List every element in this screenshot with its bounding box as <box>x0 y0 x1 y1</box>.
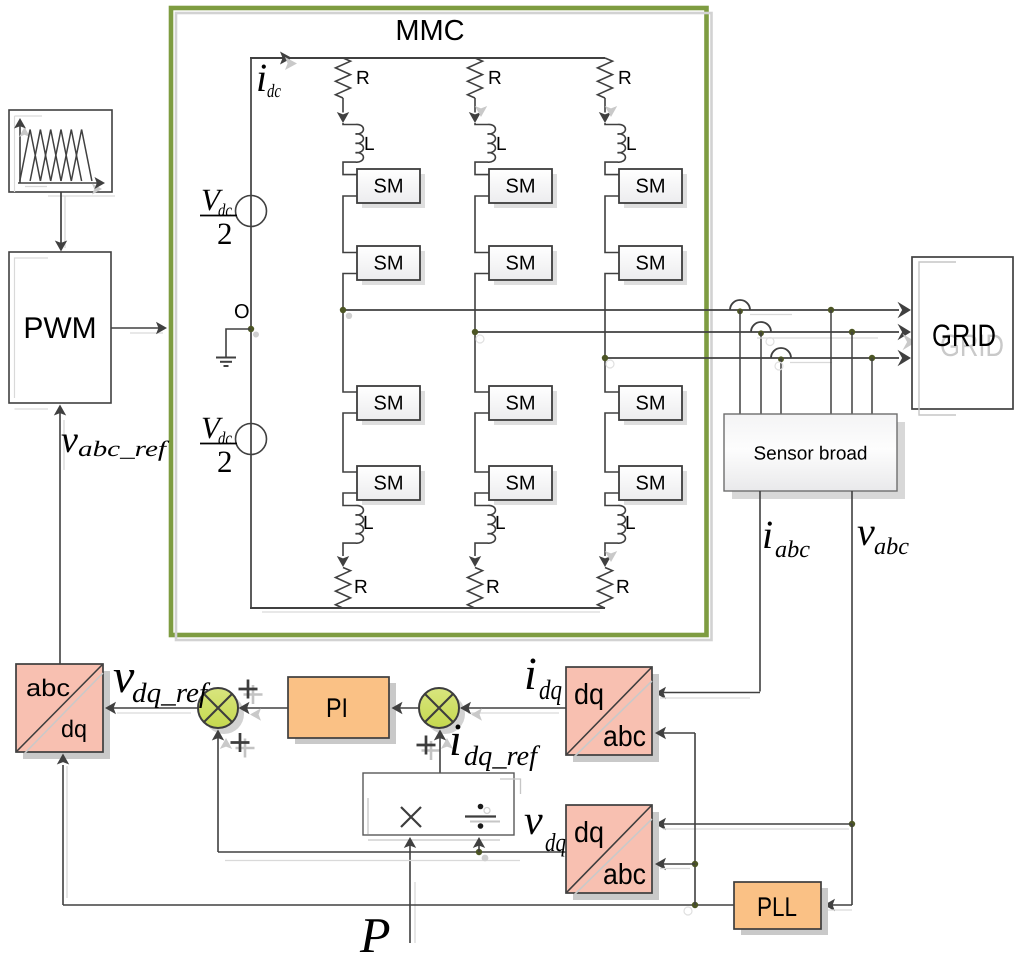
MMC enclosure green frame <box>171 8 707 635</box>
ghost arrowhead sum1 right <box>250 708 261 720</box>
arrowhead phase C into GRID <box>898 350 912 366</box>
wire voltage tap A to sensor board <box>830 310 832 414</box>
wire current sensor C to sensor board <box>780 358 782 414</box>
arrowhead i_abc into dq/abc <box>655 687 666 699</box>
svg-text:SM: SM <box>374 253 404 275</box>
svg-text:v: v <box>857 509 875 554</box>
ghost PLL input <box>827 909 852 911</box>
wire PI to sum1 <box>240 707 288 709</box>
svg-text:R: R <box>486 577 500 598</box>
node phase C junction <box>602 355 608 361</box>
arrowhead into PI <box>392 702 403 714</box>
arrowhead theta into dq/abc1 <box>655 727 666 739</box>
wire dc link vertical <box>250 58 252 608</box>
arrowhead into PLL <box>824 899 835 911</box>
svg-text:dq: dq <box>61 716 87 743</box>
carrier axes <box>19 122 21 183</box>
node theta junction <box>692 902 698 908</box>
inductor L upper arm C <box>605 123 625 175</box>
svg-text:R: R <box>488 68 502 89</box>
arrowhead v_dq into divider <box>473 837 485 848</box>
ghost node A <box>346 313 352 319</box>
svg-text:L: L <box>364 134 375 155</box>
voltage tap node phase A <box>828 307 834 313</box>
wire PWM to MMC shadow <box>130 332 163 334</box>
diagonal dq/abc2 <box>567 806 651 892</box>
svg-text:dq: dq <box>545 828 566 857</box>
wire theta branch vertical <box>694 733 696 905</box>
ghost diagonal dq/abc1 <box>574 681 652 757</box>
wire v_dq into divider <box>478 842 480 852</box>
block dq/abc 1 <box>573 674 659 762</box>
ghost arrowhead sum2 right <box>471 708 482 720</box>
svg-text:abc: abc <box>26 675 70 702</box>
svg-text:PWM: PWM <box>23 312 96 345</box>
node phase B junction <box>472 329 478 335</box>
wire SMC3 to SMC4 <box>605 413 619 472</box>
svg-text:dq: dq <box>574 817 604 849</box>
svg-text:R: R <box>354 577 368 598</box>
summing junction 2 (i) <box>425 694 465 734</box>
svg-text:2: 2 <box>217 444 233 479</box>
wire resistor to arrow upper A <box>342 98 344 113</box>
resistor R lower arm C <box>598 568 613 609</box>
svg-text:abc_ref: abc_ref <box>78 436 170 461</box>
svg-text:SM: SM <box>506 473 536 495</box>
svg-text:dq_ref: dq_ref <box>132 678 210 709</box>
wire theta PLL output <box>63 904 734 906</box>
svg-text:L: L <box>496 134 507 155</box>
plus sign sum1 upper <box>244 693 263 696</box>
ghost line after hump C <box>790 362 832 364</box>
wire phase B to GRID <box>475 331 899 333</box>
inductor L upper arm A <box>343 123 363 175</box>
ghost arrowhead phase B <box>903 334 917 350</box>
inductor L lower arm B <box>475 493 495 556</box>
wire phase A to GRID <box>343 309 899 311</box>
resistor R upper arm B <box>468 58 483 98</box>
arrowhead v_abc into dq/abc2 <box>655 818 666 830</box>
wire SMB1 to SMB2 <box>475 196 489 253</box>
arrowhead arm current lower C <box>599 556 611 567</box>
resistor R lower arm B <box>468 568 483 609</box>
svg-text:i: i <box>256 55 267 100</box>
ghost line after hump A <box>750 314 792 316</box>
ghost i_abc elbow <box>660 697 750 699</box>
submodule SM A3 <box>362 391 425 425</box>
arrowhead into sum2 <box>460 702 471 714</box>
svg-text:abc: abc <box>603 859 646 891</box>
svg-text:SM: SM <box>506 176 536 198</box>
svg-text:SM: SM <box>636 473 666 495</box>
block PWM <box>9 252 111 403</box>
arrowhead arm current lower A <box>337 556 349 567</box>
wire v_abc down to PLL <box>851 824 853 905</box>
submodule SM B3 <box>494 391 557 425</box>
ghost arrowhead lower C <box>605 551 617 562</box>
resistor R upper arm C <box>598 58 613 98</box>
svg-text:L: L <box>495 513 506 534</box>
arrowhead v_abc_ref into PWM <box>54 405 66 416</box>
divide symbol <box>470 821 500 823</box>
wire PWM to MMC <box>111 327 162 329</box>
wire dc bottom bus <box>250 607 605 609</box>
node phase A junction <box>340 307 346 313</box>
arrowhead into MMC <box>156 322 167 334</box>
svg-text:abc: abc <box>603 721 646 753</box>
inductor L lower arm C <box>605 493 625 556</box>
ghost diagonal abc/dq <box>24 673 103 754</box>
wire i_dq_ref multiplier to sum2 <box>439 731 441 773</box>
svg-text:MMC: MMC <box>395 15 464 47</box>
wire i_abc from sensor board <box>759 491 761 692</box>
submodule SM A4 <box>362 471 425 505</box>
ghost node v_dq <box>482 855 489 862</box>
wire i_abc into dq/abc upper input <box>657 692 760 694</box>
svg-text:SM: SM <box>374 176 404 198</box>
wire v_abc into PLL <box>826 904 852 906</box>
block PLL <box>741 888 828 935</box>
svg-text:R: R <box>618 68 632 89</box>
ground symbol <box>226 329 251 357</box>
ghost arrowhead i_dc <box>285 57 297 70</box>
wire SMC1 to SMC2 <box>605 196 619 253</box>
submodule SM B2 <box>494 251 557 285</box>
wire carrier to PWM <box>60 192 62 246</box>
ghost theta branch <box>660 868 690 870</box>
svg-text:SM: SM <box>506 393 536 415</box>
svg-text:P: P <box>359 907 391 957</box>
wire v_abc into dq/abc2 upper input <box>657 823 852 825</box>
plus sign sum2 <box>422 749 441 752</box>
carrier waveform box <box>9 110 112 192</box>
svg-text:dc: dc <box>267 81 281 102</box>
svg-text:SM: SM <box>636 176 666 198</box>
block dq/abc 2 <box>573 812 659 900</box>
svg-text:v: v <box>524 798 543 844</box>
svg-text:2: 2 <box>217 216 233 251</box>
wire voltage tap C to sensor board <box>871 358 873 414</box>
block PI <box>295 683 396 744</box>
svg-text:i: i <box>449 714 462 765</box>
current sensor hump phase A <box>730 300 750 310</box>
wire theta into dq/abc2 lower input <box>657 863 695 865</box>
submodule SM C3 <box>624 391 687 425</box>
wire phase C to GRID <box>605 357 899 359</box>
diagonal dq/abc1 <box>567 668 651 754</box>
arrowhead phase B into GRID <box>898 324 912 340</box>
wire v_abc from sensor board <box>851 491 853 824</box>
ghost line after hump B <box>757 337 878 339</box>
submodule SM B4 <box>494 471 557 505</box>
svg-text:O: O <box>234 301 250 323</box>
ghost arrowhead upper B <box>475 106 487 117</box>
svg-text:L: L <box>363 513 374 534</box>
dc source V1 (upper Vdc/2) <box>236 196 267 227</box>
wire P input <box>414 882 416 943</box>
svg-text:SM: SM <box>636 393 666 415</box>
svg-text:abc: abc <box>874 534 909 560</box>
wire voltage tap B to sensor board <box>851 332 853 414</box>
arrowhead into abc/dq <box>105 702 116 714</box>
wire current sensor B to sensor board <box>760 332 762 414</box>
node theta junction 2 <box>692 861 698 867</box>
svg-text:SM: SM <box>506 253 536 275</box>
arrowhead arm current lower B <box>469 556 481 567</box>
submodule SM A2 <box>362 251 425 285</box>
submodule SM C1 <box>624 174 687 208</box>
wire resistor to arrow upper C <box>604 98 606 113</box>
svg-text:dq_ref: dq_ref <box>464 741 540 772</box>
wire i_dq from dq/abc to sum2 <box>468 712 559 714</box>
ghost arrowhead sum2 bottom <box>441 738 453 749</box>
inductor L upper arm B <box>475 123 495 175</box>
wire theta into dq/abc1 lower input <box>657 732 695 734</box>
wire resistor to arrow upper B <box>474 98 476 113</box>
arrowhead into sum1 <box>239 702 250 714</box>
multiplier/divider box <box>363 773 514 835</box>
current sensor hump phase B <box>751 322 771 332</box>
current sensor hump phase C <box>771 348 791 358</box>
voltage tap node phase C <box>869 355 875 361</box>
ghost theta into abc/dq <box>66 766 68 898</box>
summing junction 1 (v) <box>204 694 244 734</box>
arrowhead into PWM top <box>55 241 67 252</box>
wire carrier to PWM shadow <box>64 196 66 248</box>
svg-text:L: L <box>625 513 636 534</box>
arrowhead P into multiplier <box>404 837 416 848</box>
svg-text:L: L <box>626 134 637 155</box>
ghost arrowhead sum1 bottom <box>220 738 232 749</box>
wire dc top bus <box>250 57 605 59</box>
submodule SM A1 <box>362 174 425 208</box>
dc source V2 (lower Vdc/2) <box>236 424 267 455</box>
inductor L lower arm A <box>343 493 363 556</box>
wire sum2 to PI <box>393 707 419 709</box>
ghost arrowhead upper C <box>605 106 617 117</box>
node v_abc junction <box>849 821 855 827</box>
wire v_abc_ref abc/dq to PWM <box>63 420 65 470</box>
svg-text:dq: dq <box>539 675 562 706</box>
svg-text:abc: abc <box>775 537 810 563</box>
wire SMA2 to SMA3 through node A <box>343 274 357 393</box>
arrowhead theta into dq/abc2 <box>655 858 666 870</box>
svg-text:PLL: PLL <box>757 892 797 922</box>
svg-text:SM: SM <box>636 253 666 275</box>
submodule SM B1 <box>494 174 557 208</box>
wire SMC2 to SMC3 through node C <box>605 274 619 393</box>
arrowhead i_dq_ref into sum2 <box>434 730 446 741</box>
carrier triangular waves <box>20 130 41 182</box>
svg-text:PI: PI <box>326 693 348 723</box>
resistor R lower arm A <box>336 568 351 609</box>
svg-text:SM: SM <box>374 473 404 495</box>
multiply symbol <box>401 807 421 827</box>
arrowhead theta into abc/dq <box>57 754 69 765</box>
wire v_dq feedback <box>225 860 520 862</box>
svg-text:i: i <box>524 648 537 699</box>
wire SMA1 to SMA2 <box>343 196 357 253</box>
wire current sensor A to sensor board <box>739 310 741 414</box>
wire SMB3 to SMB4 <box>475 413 489 472</box>
voltage tap node phase B <box>849 329 855 335</box>
block GRID <box>912 257 1013 409</box>
svg-text:Sensor broad: Sensor broad <box>754 444 868 465</box>
arrowhead arm current upper B <box>469 112 481 123</box>
wire sum1 to abc/dq <box>117 712 191 714</box>
plus sign sum1 lower <box>236 747 255 750</box>
block sensor board <box>732 422 905 499</box>
ghost dc bottom bus <box>262 611 600 613</box>
resistor R upper arm A <box>336 58 351 98</box>
arrowhead arm current upper A <box>337 112 349 123</box>
MMC enclosure shadow frame <box>176 13 712 640</box>
ghost node O <box>253 332 259 338</box>
ghost diagonal dq/abc2 <box>574 819 652 895</box>
arrowhead v_dq into sum1 <box>212 730 224 741</box>
arrowhead i_dc on bus <box>280 52 292 65</box>
svg-text:SM: SM <box>374 393 404 415</box>
node v_dq divider branch <box>476 849 482 855</box>
ghost v_abc branch <box>663 828 849 830</box>
block abc/dq transform <box>23 671 110 759</box>
arrowhead phase A into GRID <box>898 302 912 318</box>
submodule SM C2 <box>624 251 687 285</box>
svg-text:R: R <box>356 68 370 89</box>
svg-text:GRID: GRID <box>932 318 996 353</box>
diagonal abc/dq <box>17 665 102 751</box>
svg-text:dq: dq <box>574 679 604 711</box>
svg-text:R: R <box>616 577 630 598</box>
wire SMB2 to SMB3 through node B <box>475 274 489 393</box>
submodule SM C4 <box>624 471 687 505</box>
svg-text:v: v <box>61 419 78 461</box>
wire SMA3 to SMA4 <box>343 413 357 472</box>
svg-text:i: i <box>762 512 773 557</box>
arrowhead arm current upper C <box>599 112 611 123</box>
